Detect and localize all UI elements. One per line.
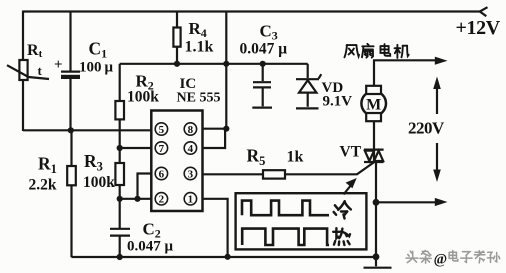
svg-text:100k: 100k	[127, 89, 159, 106]
wire pin5 row	[23, 129, 152, 131]
wire motor to triac	[373, 121, 375, 149]
wire pin7 stub	[120, 147, 152, 149]
wire triac lower lead	[375, 162, 377, 257]
node output junction	[373, 199, 380, 206]
pin 2	[155, 193, 167, 206]
node C1/R1 junction	[68, 127, 74, 133]
svg-text:R5: R5	[247, 146, 266, 169]
pin 3	[184, 167, 196, 180]
svg-text:+: +	[54, 57, 63, 73]
wire top +12V rail	[23, 7, 488, 16]
svg-text:8: 8	[188, 124, 194, 136]
node C2 bottom	[117, 254, 123, 260]
svg-text:@: @	[434, 252, 448, 268]
svg-text:R3: R3	[84, 151, 103, 174]
node pin7 junction	[117, 145, 123, 151]
svg-text:0.047 μ: 0.047 μ	[127, 239, 174, 255]
wire bottom rail	[72, 256, 377, 258]
svg-text:1: 1	[188, 194, 194, 206]
svg-text:R1: R1	[38, 154, 57, 177]
svg-text:3: 3	[188, 168, 194, 180]
label fan motor glyphs 风扇电机	[344, 44, 408, 58]
wire left rail	[22, 11, 24, 132]
label cold glyph	[334, 201, 351, 218]
node pin6 junction	[134, 196, 140, 202]
svg-text:NE 555: NE 555	[177, 91, 221, 106]
svg-text:C1: C1	[89, 39, 108, 61]
watermark 头条@电子老孙	[406, 251, 500, 268]
wire pin4 stub	[203, 130, 226, 148]
svg-text:100 μ: 100 μ	[79, 60, 114, 76]
wire pin6 stub	[138, 174, 153, 199]
thermistor Rt	[7, 60, 49, 80]
wire Vcc distribution row	[120, 63, 308, 65]
pin 6	[155, 167, 167, 180]
svg-text:6: 6	[159, 168, 165, 180]
wire fan arrow	[435, 57, 448, 65]
diode VD zener	[296, 64, 321, 109]
svg-text:100k: 100k	[83, 174, 115, 191]
ground	[364, 257, 392, 268]
svg-text:5: 5	[159, 124, 165, 136]
annotation arrow to gate	[344, 178, 357, 195]
svg-text:1.1k: 1.1k	[185, 39, 214, 56]
resistor R3	[115, 163, 124, 229]
waveform hot trace	[242, 229, 329, 245]
wire output arrow right	[376, 198, 448, 206]
pin 7	[155, 142, 167, 155]
wire pin1 to ground rail	[203, 199, 228, 257]
svg-text:VT: VT	[340, 144, 362, 161]
wire pin2 stub	[120, 198, 152, 200]
svg-text:0.047 μ: 0.047 μ	[240, 41, 288, 58]
svg-text:Rt: Rt	[27, 42, 43, 60]
node ground junction	[373, 253, 380, 260]
svg-text:9.1V: 9.1V	[323, 94, 353, 110]
wire pin8/4 riser	[225, 12, 227, 129]
resistor R5	[263, 170, 285, 178]
svg-text:1k: 1k	[287, 149, 304, 166]
svg-text:2.2k: 2.2k	[29, 177, 57, 194]
waveform cold trace	[242, 201, 329, 216]
wire fan branch top	[374, 60, 437, 86]
motor M	[361, 86, 386, 121]
waveform box	[236, 193, 367, 249]
resistor R2	[115, 64, 124, 163]
wire 220V up arrow	[433, 77, 441, 115]
node R4 bottom	[174, 61, 180, 67]
IC U1 NE555 box	[151, 111, 202, 212]
capacitor C3	[252, 64, 272, 108]
pin 8	[184, 123, 196, 136]
node riser/Vcc row	[223, 61, 229, 67]
svg-text:R4: R4	[189, 19, 207, 40]
transistor VT triac	[364, 150, 384, 162]
svg-text:220V: 220V	[408, 119, 445, 138]
capacitor C2	[110, 229, 130, 257]
svg-text:C2: C2	[143, 220, 161, 241]
wire pin8 stub	[203, 128, 227, 130]
svg-text:7: 7	[159, 143, 165, 155]
node pin1 ground	[225, 254, 231, 260]
svg-text:t: t	[38, 63, 43, 78]
svg-text:M: M	[366, 97, 381, 114]
resistor R4	[173, 12, 180, 64]
svg-text:C3: C3	[260, 22, 278, 43]
resistor R1	[67, 130, 76, 257]
label hot glyph	[333, 228, 350, 245]
pin 1	[184, 193, 196, 206]
svg-text:4: 4	[188, 143, 194, 155]
svg-text:+12V: +12V	[456, 17, 501, 39]
wire 220V down arrow	[433, 143, 441, 182]
pin 5	[155, 123, 167, 136]
pin 4	[184, 142, 196, 155]
node pin8	[223, 126, 229, 132]
svg-text:2: 2	[159, 194, 165, 206]
capacitor C1	[54, 11, 80, 131]
node C3 top	[260, 61, 266, 67]
node pin2 junction left	[117, 196, 123, 202]
wire pin3 to gate	[203, 162, 376, 175]
